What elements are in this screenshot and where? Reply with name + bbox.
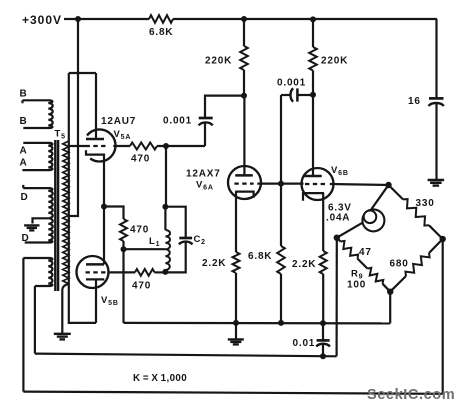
resistor 47 <box>341 241 359 259</box>
node V6A plate junction <box>241 93 247 99</box>
node L1 top junction <box>162 204 168 210</box>
wire V6B grid to bridge top <box>330 184 389 185</box>
svg-text:B: B <box>20 89 28 100</box>
svg-text:A: A <box>20 158 28 169</box>
transformer T5 winding A (middle primary) <box>22 143 52 170</box>
wire bus ground stub <box>235 323 237 339</box>
wire riser to bridge left corner <box>336 238 338 357</box>
node bridge left corner <box>334 235 340 241</box>
lamp 6.3V .04A bulb <box>362 209 384 231</box>
wire tap node down to bus <box>122 249 124 323</box>
svg-text:.04A: .04A <box>326 213 350 224</box>
svg-text:D: D <box>21 192 29 203</box>
svg-text:6.8K: 6.8K <box>149 27 173 38</box>
capacitor 0.01 bottom plate (curved) <box>316 344 330 347</box>
wire 220K-1 bottom lead <box>243 70 245 96</box>
wire pi-link top (V5A plate to secondary top) <box>69 72 96 74</box>
wire bridge left corner to lamp <box>337 222 364 238</box>
capacitor 0.001 left bottom plate (curved) <box>199 122 213 125</box>
ground (cathode bus) <box>228 338 244 340</box>
ground (D winding tap) <box>24 224 39 226</box>
capacitor 0.001 right left plate (curved) <box>291 88 294 101</box>
wire 0.01 cap to lower line <box>322 344 324 357</box>
tube V5B grid (dashed) <box>86 271 107 273</box>
wire bridge bottom-right lead <box>429 239 443 253</box>
node +300V junction <box>75 16 81 22</box>
wire V6B cathode lead <box>322 193 324 251</box>
inductor L1 <box>165 230 170 270</box>
wire V5A grid lead from secondary <box>69 145 86 147</box>
tube V5A envelope <box>87 129 116 161</box>
svg-text:B: B <box>20 116 28 127</box>
capacitor 16 bottom plate (curved) <box>429 103 444 106</box>
wire 6.8K to bus <box>280 274 282 323</box>
wire 220K-2 top lead <box>312 19 314 47</box>
wire 2.2K-1 to bus <box>235 273 237 323</box>
tube V5B cathode bar <box>86 278 104 280</box>
tube V6B envelope <box>302 168 334 200</box>
node V6B plate junction <box>310 92 316 98</box>
capacitor 16 top plate <box>429 97 444 100</box>
wire lower return line <box>35 354 337 357</box>
svg-text:D: D <box>22 233 30 244</box>
transformer T5 secondary winding <box>63 141 69 284</box>
lamp loop <box>364 211 377 224</box>
ground (secondary, large) <box>54 333 71 335</box>
resistor 470 (V5A output) <box>130 143 157 150</box>
wire 330 to right corner <box>429 225 443 239</box>
resistor 220K (left) <box>240 46 248 70</box>
svg-text:SeekIC.com: SeekIC.com <box>367 387 455 403</box>
tube V5A plate bar <box>86 138 104 141</box>
svg-text:0.01: 0.01 <box>293 338 316 349</box>
wire bridge top edge to lamp <box>372 185 389 209</box>
wire 2.2K-2 to bus <box>322 274 324 323</box>
wire V6A grid to V6B grid <box>257 183 303 185</box>
wire node up to 0.001 cap <box>204 122 206 146</box>
node 470v/L1 tap <box>121 246 127 252</box>
wire capacitor 16 to ground <box>435 103 437 180</box>
wire secondary bottom to ground <box>62 284 69 334</box>
tube V6A grid (dashed) <box>234 183 253 185</box>
svg-text:16: 16 <box>408 96 421 107</box>
capacitor C2 top plate <box>179 237 192 240</box>
wire +300V supply rail top <box>64 18 149 20</box>
wire V5A output to 470 <box>113 145 130 147</box>
wire cathode bus <box>124 322 391 325</box>
transformer T5 winding 4 (bottom primary) <box>23 258 52 286</box>
node bus/6.8K <box>278 320 284 326</box>
capacitor 0.01 top plate <box>317 339 330 342</box>
resistor 470 (V5B grid) <box>135 269 155 276</box>
wire V5A cathode jog to 470 <box>104 207 124 220</box>
node top rail junction at 220K right <box>310 16 316 22</box>
tube V5B plate bar <box>86 263 104 266</box>
wire V5B cathode lead <box>95 279 97 323</box>
wire outer loop bottom <box>23 392 442 394</box>
svg-text:2.2K: 2.2K <box>202 258 226 269</box>
capacitor C2 bottom plate (curved) <box>179 242 192 245</box>
svg-text:0.001: 0.001 <box>277 78 306 89</box>
wire tap to L1 <box>124 248 166 250</box>
wire V6A plate lead <box>243 96 245 176</box>
node bridge right corner <box>440 236 446 242</box>
wire right rail down to capacitor 16 <box>435 19 437 98</box>
tube V6A plate bar <box>235 174 253 177</box>
resistor 330 <box>403 199 429 226</box>
svg-text:470: 470 <box>130 225 149 236</box>
svg-text:2.2K: 2.2K <box>292 259 316 270</box>
resistor 680 <box>405 253 429 276</box>
wire 470 to node <box>157 145 205 147</box>
tube V6A cathode <box>235 192 253 198</box>
wire 680 to bottom corner <box>390 276 406 292</box>
wire top rail right of 6.8K <box>173 18 437 20</box>
wire bus to 0.01 cap <box>322 323 324 341</box>
node bus/V6B cathode (0.01 tap) <box>320 320 326 326</box>
tube V6B grid (dashed) <box>305 183 326 185</box>
wire secondary spine / V5B cathode return <box>69 73 96 323</box>
svg-text:12AU7: 12AU7 <box>101 116 136 127</box>
wire C2 bottom branch <box>165 241 185 272</box>
tube V5A cathode and lead <box>86 150 104 206</box>
tube V6B plate bar <box>303 175 322 178</box>
wire 470 to L1 bottom node <box>155 271 166 273</box>
node 0.01/lower line <box>320 353 326 359</box>
wire +300V drop to secondary tap <box>70 19 79 216</box>
svg-text:220K: 220K <box>321 56 348 67</box>
wire V6B plate lead <box>312 95 314 176</box>
wire L1 top lead <box>164 146 167 230</box>
wire 470v to tap node <box>122 241 124 249</box>
wire bus to bridge bottom riser <box>389 292 391 324</box>
node 470/L1 top junction <box>163 143 169 149</box>
wire R9 to bottom corner <box>383 284 391 292</box>
capacitor 0.001 right right plate <box>296 88 299 101</box>
wire cap2 left lead <box>281 94 291 96</box>
svg-text:12AX7: 12AX7 <box>186 169 221 180</box>
wire D winding center tap to ground <box>33 218 49 223</box>
ground (right rail) <box>428 179 445 181</box>
svg-text:330: 330 <box>416 198 435 209</box>
svg-text:470: 470 <box>131 154 150 165</box>
transformer T5 core <box>55 140 58 291</box>
wire V5B plate lead <box>103 207 105 265</box>
svg-text:47: 47 <box>359 247 372 258</box>
wire 0.001 cap to V6A plate node <box>205 96 244 118</box>
node L1 bottom junction <box>162 269 168 275</box>
node bus/V6A cathode <box>233 320 239 326</box>
resistor 6.8K (grid leak) <box>277 246 285 274</box>
tube V5B envelope <box>77 256 109 288</box>
wire transformer W4 bottom drop <box>34 286 36 354</box>
node grid/6.8K junction <box>278 181 284 187</box>
wire V6A cathode lead <box>235 192 237 252</box>
wire L1 bottom lead <box>164 270 166 272</box>
wire bridge left corner lead <box>337 238 341 242</box>
svg-text:A: A <box>20 146 28 157</box>
resistor 470 (vertical) <box>120 219 127 241</box>
tube V6A envelope <box>228 166 261 199</box>
node bridge top corner <box>385 182 391 188</box>
resistor 220K (right) <box>309 47 317 71</box>
svg-text:+300V: +300V <box>22 13 62 27</box>
svg-text:470: 470 <box>132 281 151 292</box>
capacitor 0.001 left top plate <box>199 117 213 120</box>
node top rail junction at 220K left <box>241 16 247 22</box>
tube V5A grid (dashed) <box>86 145 107 147</box>
wire C2 top branch <box>165 207 185 238</box>
node V5A cathode / V5B plate junction <box>101 204 107 210</box>
resistor 2.2K (V6B cathode) <box>320 251 327 274</box>
svg-text:680: 680 <box>390 259 409 270</box>
svg-text:6.8K: 6.8K <box>248 251 272 262</box>
svg-text:K = X 1,000: K = X 1,000 <box>133 373 187 384</box>
svg-text:100: 100 <box>347 280 366 291</box>
wire cap2 right lead <box>297 94 313 96</box>
resistor R9 100 <box>368 268 384 284</box>
wire V5B grid to 470 <box>109 271 135 273</box>
wire outer loop right riser <box>442 239 444 394</box>
wire V5A plate lead <box>95 73 97 139</box>
resistor 2.2K (V6A cathode) <box>233 252 240 273</box>
wire bridge top-right lead <box>389 185 404 199</box>
resistor 6.8K (top, plate supply) <box>149 15 173 23</box>
wire cap2 left drop to grid node <box>280 95 282 184</box>
wire 220K-2 bottom lead <box>312 71 314 96</box>
transformer T5 winding D (tapped primary) <box>23 185 52 243</box>
svg-text:0.001: 0.001 <box>163 116 192 127</box>
wire 220K-1 top lead <box>243 19 245 46</box>
wire 47 to R9 <box>358 259 368 269</box>
svg-text:220K: 220K <box>205 56 232 67</box>
wire grid node to 6.8K <box>280 184 282 246</box>
transformer T5 winding B (top primary) <box>23 100 53 128</box>
tube V6B cathode <box>303 193 324 201</box>
node bridge bottom corner <box>387 289 393 295</box>
wire outer loop left <box>22 258 24 392</box>
